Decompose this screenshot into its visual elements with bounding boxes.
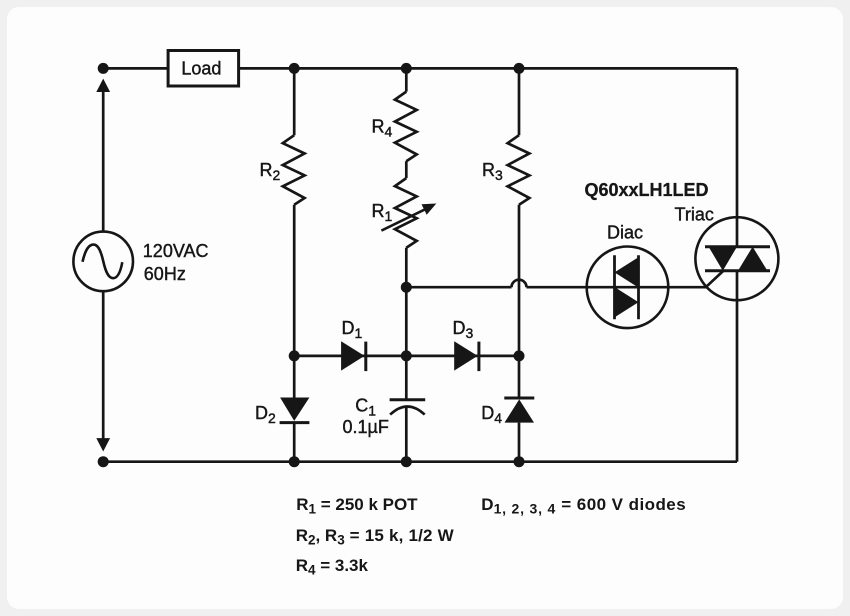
- wire right rail lower segment: [736, 271, 739, 462]
- wire R2 column top: [293, 68, 296, 135]
- wire left rail upper (source to top arrow): [102, 88, 105, 232]
- node bottom C1: [401, 456, 412, 467]
- svg-text:Diac: Diac: [607, 222, 643, 242]
- triac bottom bar: [705, 269, 770, 272]
- resistor R4: [395, 92, 417, 162]
- diac left bar: [613, 255, 616, 319]
- node top R2: [289, 63, 300, 74]
- triac right triangle: [738, 247, 767, 271]
- wire diode row D1-D3: [294, 355, 519, 358]
- diac right bar: [637, 255, 640, 319]
- wire D4 anode lead: [518, 423, 521, 462]
- svg-text:120VAC: 120VAC: [143, 241, 209, 261]
- diode D1: [341, 341, 364, 370]
- wire between R4 and R1: [405, 161, 408, 178]
- load box: [168, 51, 239, 87]
- wire top rail: [103, 67, 737, 70]
- potentiometer R1 arrow: [381, 207, 430, 231]
- node top R3: [514, 63, 525, 74]
- wire C1 bottom lead: [405, 407, 408, 462]
- capacitor C1 top plate: [390, 398, 426, 401]
- node bottom D4: [514, 456, 525, 467]
- wire hop over R3 column: [512, 280, 527, 287]
- node D3 cathode junction: [514, 350, 525, 361]
- svg-text:60Hz: 60Hz: [144, 264, 186, 284]
- wire R3 bottom to D3 node: [518, 205, 521, 356]
- wire D2 cathode lead: [293, 422, 296, 461]
- triac left triangle: [709, 247, 737, 271]
- diac U1 circle: [587, 246, 669, 328]
- capacitor C1 curved plate: [390, 406, 425, 414]
- triac top bar: [705, 245, 770, 248]
- resistor R2: [283, 135, 305, 205]
- wire R3 column top: [518, 68, 521, 135]
- wire left rail lower (source to bottom arrow): [102, 291, 105, 442]
- node gate junction: [401, 282, 412, 293]
- svg-text:Q60xxLH1LED: Q60xxLH1LED: [585, 180, 709, 200]
- wire bottom rail: [103, 460, 737, 463]
- AC source sine wave: [83, 245, 123, 279]
- svg-text:R4 = 3.3k: R4 = 3.3k: [296, 556, 369, 578]
- wire C1 top lead: [405, 356, 408, 399]
- wire D2 anode lead: [293, 356, 296, 399]
- wire R2 bottom to D1 node: [293, 205, 296, 356]
- diac upper triangle: [615, 257, 639, 287]
- diode D4: [505, 399, 535, 422]
- node D1 anode junction: [289, 350, 300, 361]
- wire R1 bottom to gate node: [405, 248, 408, 288]
- AC source V1: [73, 232, 133, 292]
- node bottom R2: [289, 456, 300, 467]
- resistor R1 (potentiometer): [395, 178, 417, 248]
- svg-text:Load: Load: [181, 59, 221, 79]
- svg-text:R2, R3 = 15 k, 1/2 W: R2, R3 = 15 k, 1/2 W: [296, 526, 455, 548]
- diac lower triangle: [615, 287, 639, 317]
- node top R4: [401, 63, 412, 74]
- diode D3: [454, 341, 477, 370]
- diode D2: [280, 398, 309, 421]
- wire gate row to diac and triac: [527, 271, 724, 287]
- wire gate node down to C1 node: [405, 287, 408, 356]
- resistor R3: [508, 135, 530, 205]
- wire right rail upper segment: [736, 68, 739, 246]
- arrow up at top of source line: [96, 79, 110, 92]
- node bottom-left: [98, 456, 109, 467]
- svg-text:Triac: Triac: [675, 204, 714, 224]
- wire R4 column top: [405, 68, 408, 91]
- node C1 junction: [401, 350, 412, 361]
- arrow down at bottom of source line: [96, 438, 110, 451]
- node top-left: [98, 63, 109, 74]
- wire gate row left of hop: [406, 286, 511, 289]
- triac Q1 circle: [695, 217, 778, 300]
- wire D4 cathode lead: [518, 356, 521, 398]
- svg-text:0.1µF: 0.1µF: [343, 417, 389, 437]
